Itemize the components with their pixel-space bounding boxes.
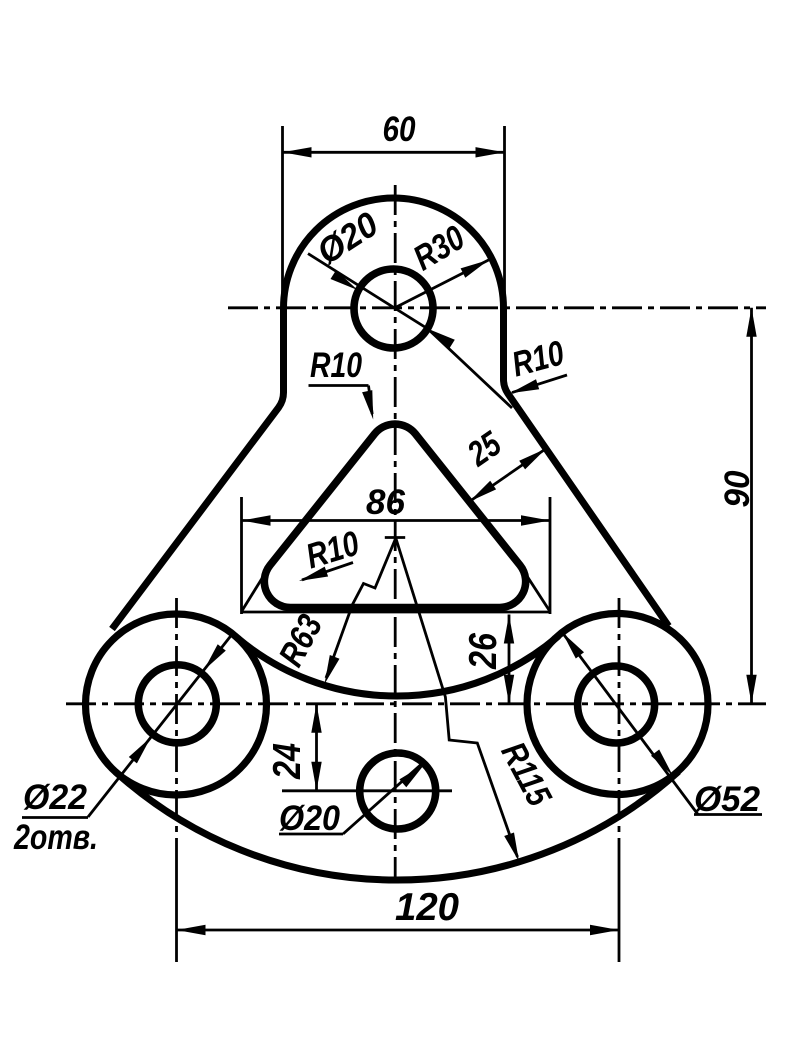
right lobe boss circle D52 <box>527 614 708 795</box>
dimension 60 <box>283 110 505 158</box>
leader R10 to right fillet <box>508 333 569 393</box>
top hole D20 <box>354 269 433 348</box>
svg-text:24: 24 <box>266 743 309 780</box>
leader R63 with break to saddle arc <box>271 538 395 684</box>
dimension 120 <box>177 886 620 935</box>
outer profile: bottom arc R115 <box>115 772 678 880</box>
outer profile: saddle arc R63 between lobes <box>235 636 558 696</box>
centerline: left lobe vertical axis <box>175 598 178 962</box>
triangular cutout with R10 corners <box>264 424 525 607</box>
dimension 86 <box>242 483 551 526</box>
centerline: main vertical axis <box>394 185 397 880</box>
centerline: top hole horizontal axis <box>228 306 766 309</box>
dimension D22 of lobe holes <box>13 633 233 857</box>
left lobe hole D22 <box>138 665 216 743</box>
dimension 24 <box>266 704 452 791</box>
tick: arc centre mark R63/R115 <box>385 536 405 539</box>
centerline: right lobe vertical axis <box>618 598 621 962</box>
svg-text:60: 60 <box>383 110 416 149</box>
svg-text:86: 86 <box>366 483 406 522</box>
svg-text:26: 26 <box>462 633 505 670</box>
leader R10 to cutout apex <box>309 346 374 420</box>
dimension D52 of right lobe <box>562 632 762 819</box>
svg-text:2отв.: 2отв. <box>13 818 98 857</box>
svg-text:Ø20: Ø20 <box>279 799 340 838</box>
dimension D20 of top hole <box>308 204 512 408</box>
dimension 26 <box>462 615 514 704</box>
svg-text:R10: R10 <box>310 346 362 385</box>
right lobe hole D22 <box>578 666 655 743</box>
svg-text:90: 90 <box>718 470 757 508</box>
construction box of dimension 86 <box>242 497 551 614</box>
svg-text:Ø52: Ø52 <box>694 780 761 819</box>
centerline: bottom lobes horizontal axis <box>66 702 766 705</box>
dimension 90 <box>718 308 757 704</box>
left lobe boss circle D52 <box>86 614 267 795</box>
leader and label D20 of small hole <box>279 764 425 838</box>
svg-text:120: 120 <box>395 886 459 929</box>
leader R30 to boss arc <box>394 218 489 309</box>
leader R10 to cutout corner <box>299 523 364 581</box>
outer profile: top boss R30 with sides, R10 fillets and tangent flanks <box>112 198 669 629</box>
svg-text:Ø22: Ø22 <box>23 778 88 817</box>
small bottom hole D20 <box>360 753 436 829</box>
extension lines of dimension 60 <box>283 126 505 310</box>
leader R115 with break to bottom arc <box>396 538 559 862</box>
dimension 25 between cutout side and flank <box>460 424 546 502</box>
